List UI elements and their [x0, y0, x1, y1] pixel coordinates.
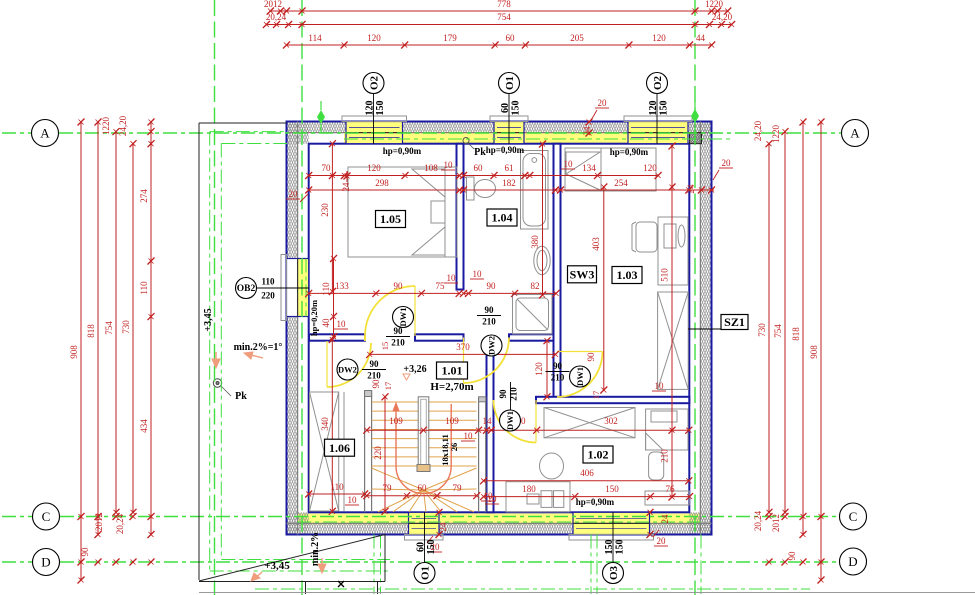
svg-text:24: 24 [686, 184, 696, 194]
svg-text:10: 10 [447, 273, 457, 283]
svg-text:754: 754 [104, 321, 114, 335]
svg-text:818: 818 [791, 327, 801, 341]
svg-text:H=2,70m: H=2,70m [430, 381, 473, 393]
svg-text:730: 730 [757, 323, 767, 337]
svg-text:109: 109 [389, 416, 403, 426]
svg-text:108: 108 [424, 163, 438, 173]
svg-text:hp=0,20m: hp=0,20m [309, 300, 319, 336]
svg-text:182: 182 [502, 178, 516, 188]
svg-text:150: 150 [605, 484, 619, 494]
svg-text:150: 150 [659, 101, 670, 116]
svg-text:510: 510 [660, 268, 670, 282]
svg-text:C: C [849, 509, 858, 524]
svg-text:C: C [42, 509, 51, 524]
svg-text:110: 110 [261, 277, 275, 287]
svg-text:61: 61 [505, 163, 514, 173]
svg-text:110: 110 [139, 281, 149, 295]
svg-text:79: 79 [453, 483, 463, 493]
svg-text:210: 210 [367, 371, 381, 381]
svg-text:24: 24 [660, 514, 670, 524]
svg-text:90: 90 [498, 389, 508, 399]
svg-text:90: 90 [586, 352, 596, 362]
svg-text:20: 20 [289, 189, 299, 199]
svg-text:75: 75 [436, 281, 446, 291]
svg-text:120: 120 [652, 33, 666, 43]
svg-text:60: 60 [418, 483, 428, 493]
svg-text:133: 133 [335, 281, 349, 291]
svg-text:Pk: Pk [474, 147, 486, 158]
svg-text:114: 114 [308, 33, 322, 43]
svg-text:818: 818 [86, 324, 96, 338]
svg-text:730: 730 [121, 320, 131, 334]
svg-text:406: 406 [580, 468, 594, 478]
svg-text:hp=0,90m: hp=0,90m [486, 145, 525, 155]
svg-text:DW2: DW2 [487, 336, 497, 355]
svg-text:D: D [41, 555, 50, 570]
svg-text:10: 10 [473, 269, 483, 279]
svg-text:1.01: 1.01 [442, 364, 463, 378]
svg-text:2012: 2012 [264, 0, 282, 9]
svg-text:24,20: 24,20 [118, 115, 128, 136]
svg-text:908: 908 [69, 345, 79, 359]
svg-text:210: 210 [660, 449, 670, 463]
svg-text:O2: O2 [652, 75, 664, 90]
svg-text:1220: 1220 [101, 117, 111, 136]
svg-text:1220: 1220 [771, 125, 781, 144]
svg-text:778: 778 [497, 0, 511, 9]
svg-text:Pk: Pk [235, 391, 247, 402]
svg-text:1.03: 1.03 [617, 268, 638, 282]
svg-text:10: 10 [444, 160, 454, 170]
svg-text:20: 20 [722, 158, 732, 168]
svg-text:1.05: 1.05 [380, 212, 401, 226]
svg-text:24,20: 24,20 [753, 120, 763, 141]
svg-text:min.2%=1°: min.2%=1° [234, 342, 283, 353]
svg-text:90: 90 [394, 281, 404, 291]
svg-text:26: 26 [449, 443, 459, 452]
svg-text:110: 110 [330, 482, 344, 492]
svg-text:76: 76 [666, 484, 676, 494]
svg-text:40: 40 [321, 318, 331, 328]
svg-text:403: 403 [591, 237, 601, 251]
svg-text:24,20: 24,20 [712, 12, 733, 22]
svg-text:A: A [850, 126, 860, 141]
svg-text:90: 90 [553, 361, 563, 371]
svg-text:O1: O1 [504, 76, 516, 90]
svg-text:90: 90 [370, 359, 380, 369]
svg-text:82: 82 [531, 281, 540, 291]
svg-text:hp=0,90m: hp=0,90m [576, 497, 615, 507]
svg-text:10: 10 [655, 381, 665, 391]
svg-text:370: 370 [456, 342, 470, 352]
svg-text:O1: O1 [420, 566, 432, 580]
svg-text:15: 15 [380, 342, 390, 351]
svg-text:150: 150 [511, 101, 522, 116]
svg-text:O2: O2 [369, 75, 381, 90]
svg-text:90: 90 [487, 281, 497, 291]
svg-text:754: 754 [773, 324, 783, 338]
svg-text:20: 20 [598, 98, 608, 108]
svg-text:hp=0,90m: hp=0,90m [383, 146, 422, 156]
svg-text:10: 10 [348, 495, 358, 505]
svg-text:434: 434 [139, 419, 149, 433]
svg-text:1.02: 1.02 [588, 448, 609, 462]
svg-text:24: 24 [341, 182, 351, 192]
svg-text:17: 17 [383, 382, 393, 391]
svg-text:1.06: 1.06 [329, 441, 350, 455]
svg-text:20,24: 20,24 [753, 510, 763, 531]
svg-text:134: 134 [582, 163, 596, 173]
svg-text:DW1: DW1 [505, 411, 515, 430]
svg-text:230: 230 [320, 203, 330, 217]
svg-text:210: 210 [509, 387, 519, 401]
svg-text:A: A [40, 126, 50, 141]
svg-text:205: 205 [570, 33, 584, 43]
svg-text:2012: 2012 [771, 514, 781, 532]
svg-text:302: 302 [604, 416, 618, 426]
svg-text:340: 340 [320, 417, 330, 431]
svg-text:+3,45: +3,45 [264, 560, 290, 572]
svg-text:60: 60 [506, 33, 516, 43]
svg-text:+3,26: +3,26 [403, 364, 426, 375]
svg-text:120: 120 [534, 362, 544, 376]
svg-text:210: 210 [482, 317, 496, 327]
svg-text:OB2: OB2 [237, 284, 256, 294]
svg-text:20,24: 20,24 [266, 12, 287, 22]
svg-text:10: 10 [484, 491, 494, 501]
svg-text:DW1: DW1 [398, 308, 408, 327]
svg-text:+3,45: +3,45 [203, 308, 214, 331]
svg-text:220: 220 [261, 291, 275, 301]
svg-text:274: 274 [139, 189, 149, 203]
svg-text:SW3: SW3 [570, 268, 595, 282]
svg-text:210: 210 [551, 373, 565, 383]
svg-text:DW2: DW2 [338, 365, 357, 375]
svg-text:10: 10 [337, 319, 347, 329]
svg-text:150: 150 [375, 101, 386, 116]
svg-text:70: 70 [322, 163, 332, 173]
svg-text:150: 150 [426, 540, 437, 555]
svg-text:220: 220 [373, 446, 383, 460]
svg-text:120: 120 [643, 163, 657, 173]
svg-text:179: 179 [443, 33, 457, 43]
svg-text:1220: 1220 [705, 0, 724, 9]
svg-text:298: 298 [375, 178, 389, 188]
svg-text:180: 180 [522, 484, 536, 494]
svg-text:254: 254 [614, 178, 628, 188]
svg-text:10: 10 [464, 431, 474, 441]
svg-text:10: 10 [564, 159, 574, 169]
svg-text:24: 24 [438, 522, 448, 532]
svg-text:SZ1: SZ1 [724, 315, 745, 329]
svg-text:210: 210 [391, 338, 405, 348]
svg-text:90: 90 [80, 547, 90, 557]
svg-text:110: 110 [321, 282, 331, 296]
svg-text:79: 79 [383, 483, 393, 493]
svg-text:1.04: 1.04 [492, 211, 513, 225]
svg-text:908: 908 [809, 345, 819, 359]
svg-text:O3: O3 [608, 565, 620, 580]
svg-text:DW1: DW1 [575, 367, 585, 386]
svg-text:44: 44 [696, 33, 706, 43]
svg-text:109: 109 [445, 416, 459, 426]
svg-text:min.2%: min.2% [310, 532, 321, 566]
svg-text:14: 14 [483, 416, 493, 426]
svg-text:90: 90 [485, 305, 495, 315]
svg-text:150: 150 [615, 540, 626, 555]
svg-text:754: 754 [497, 12, 511, 22]
svg-text:120: 120 [367, 163, 381, 173]
svg-text:17: 17 [591, 391, 601, 400]
svg-text:hp=0,90m: hp=0,90m [610, 147, 649, 157]
svg-text:380: 380 [530, 235, 540, 249]
svg-text:120: 120 [367, 33, 381, 43]
svg-text:D: D [848, 554, 857, 569]
svg-text:20: 20 [657, 536, 667, 546]
svg-text:60: 60 [474, 163, 484, 173]
